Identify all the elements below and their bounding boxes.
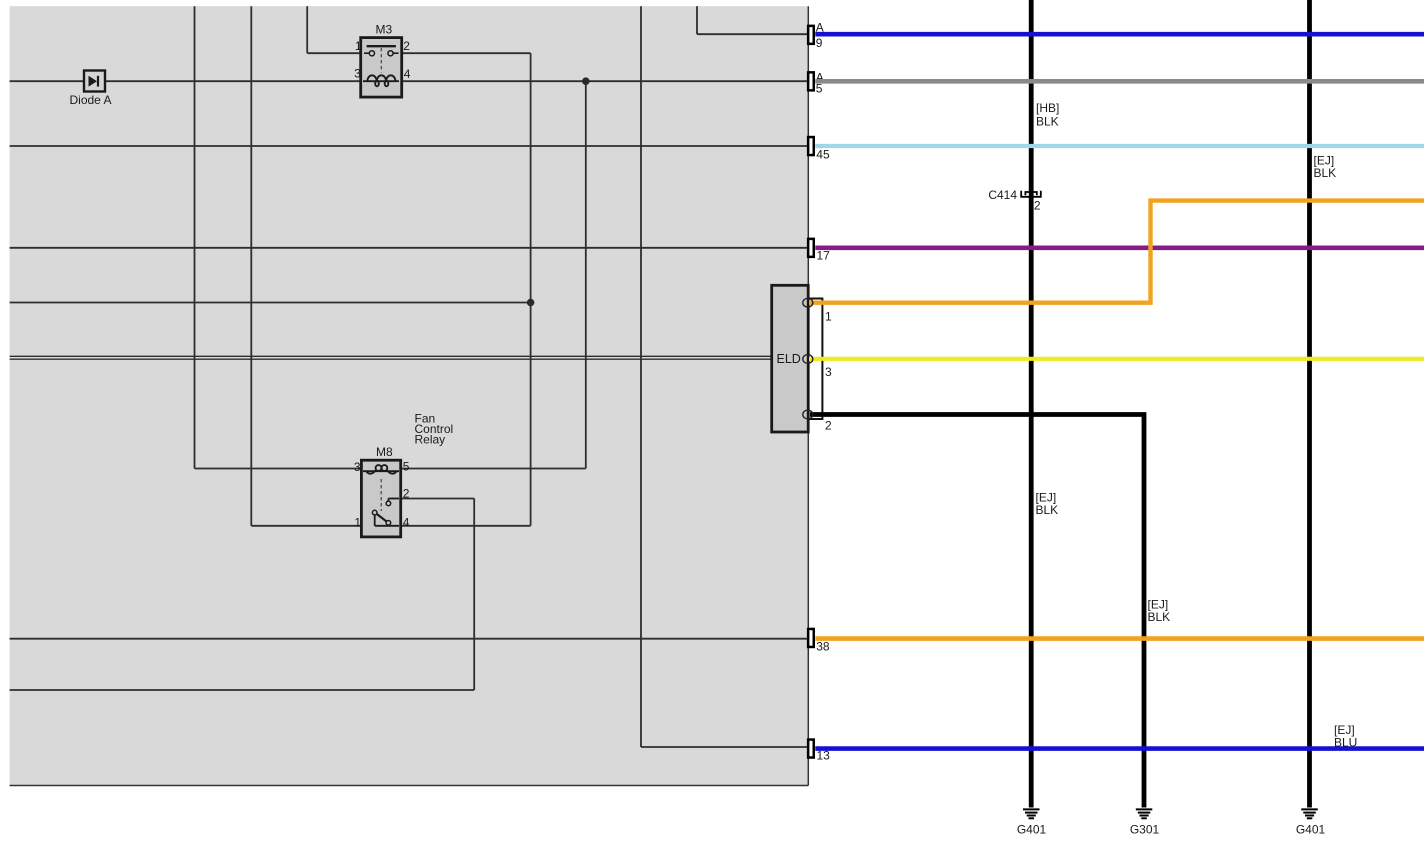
svg-text:1: 1	[825, 310, 832, 324]
svg-text:17: 17	[817, 249, 831, 263]
svg-text:BLU: BLU	[1334, 736, 1357, 750]
svg-text:2: 2	[403, 39, 410, 53]
svg-text:[HB]: [HB]	[1036, 101, 1059, 115]
svg-text:BLK: BLK	[1036, 114, 1059, 128]
svg-text:38: 38	[816, 639, 830, 653]
svg-text:ELD: ELD	[777, 352, 801, 366]
svg-text:BLK: BLK	[1148, 610, 1171, 624]
svg-text:2: 2	[1034, 198, 1041, 212]
svg-text:2: 2	[825, 418, 832, 432]
svg-text:M3: M3	[376, 23, 393, 37]
svg-text:9: 9	[816, 36, 823, 50]
svg-text:4: 4	[403, 515, 410, 529]
svg-text:M8: M8	[376, 445, 393, 459]
svg-text:3: 3	[354, 66, 361, 80]
svg-text:3: 3	[825, 365, 832, 379]
svg-text:G301: G301	[1130, 823, 1160, 837]
svg-text:5: 5	[403, 460, 410, 474]
svg-text:1: 1	[354, 515, 361, 529]
svg-text:1: 1	[355, 39, 362, 53]
svg-text:BLK: BLK	[1036, 503, 1059, 517]
svg-text:G401: G401	[1296, 823, 1326, 837]
svg-text:2: 2	[403, 487, 410, 501]
svg-text:Diode A: Diode A	[70, 93, 112, 107]
svg-text:BLK: BLK	[1314, 166, 1337, 180]
svg-text:45: 45	[816, 147, 830, 161]
svg-text:3: 3	[354, 460, 361, 474]
svg-text:Relay: Relay	[415, 433, 446, 447]
svg-text:C414: C414	[988, 188, 1017, 202]
svg-text:G401: G401	[1017, 823, 1047, 837]
svg-text:4: 4	[404, 67, 411, 81]
